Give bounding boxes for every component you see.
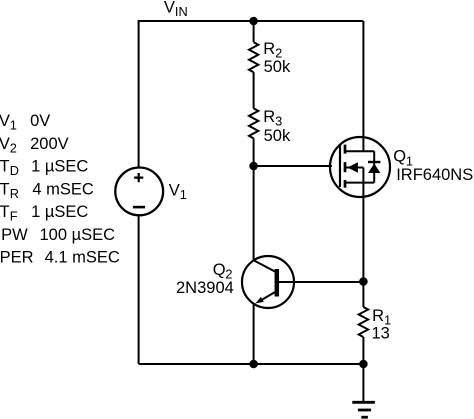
svg-text:R: R xyxy=(10,186,19,201)
resistor R2 xyxy=(249,40,291,76)
svg-text:PER: PER xyxy=(0,249,34,267)
svg-text:1 µSEC: 1 µSEC xyxy=(31,203,88,221)
transistor Q2 2N3904 xyxy=(176,256,294,308)
node junction dot R3 / gate xyxy=(249,162,258,171)
ground xyxy=(352,402,375,417)
svg-text:4 mSEC: 4 mSEC xyxy=(32,180,94,198)
body diode triangle xyxy=(368,164,380,174)
svg-text:1: 1 xyxy=(180,187,187,202)
svg-text:50k: 50k xyxy=(264,58,291,76)
svg-text:R: R xyxy=(372,307,384,325)
svg-text:1: 1 xyxy=(10,118,17,133)
resistor R3 xyxy=(249,108,291,145)
body stub with arrow xyxy=(345,167,363,169)
svg-text:Q: Q xyxy=(213,261,226,279)
wire top rail VIN xyxy=(139,20,364,22)
svg-text:V: V xyxy=(164,0,175,16)
node junction dot top rail / R2 xyxy=(249,17,258,26)
svg-text:4.1 mSEC: 4.1 mSEC xyxy=(45,249,120,267)
svg-text:R: R xyxy=(263,40,275,58)
svg-text:PW: PW xyxy=(1,226,28,244)
parameter list text xyxy=(0,112,120,267)
mosfet Q1 IRF640NS xyxy=(330,137,473,198)
wire Q2 base to source node xyxy=(279,281,363,283)
body diode vertical xyxy=(373,151,375,182)
source vertical inside xyxy=(362,168,364,198)
svg-text:F: F xyxy=(10,209,18,224)
wire R3 to Q2 collector xyxy=(253,138,255,260)
node junction dot Q2 emitter / bottom rail xyxy=(249,360,258,369)
svg-text:0V: 0V xyxy=(30,112,50,130)
svg-text:IRF640NS: IRF640NS xyxy=(396,166,473,184)
wire Q1 drain to top rail xyxy=(362,21,364,137)
svg-text:D: D xyxy=(10,163,19,178)
node junction dot source / base xyxy=(359,277,368,286)
svg-text:13: 13 xyxy=(372,325,390,343)
svg-text:1 µSEC: 1 µSEC xyxy=(31,158,88,176)
svg-text:R: R xyxy=(263,108,275,126)
gate bar xyxy=(339,145,341,187)
svg-text:50k: 50k xyxy=(264,127,291,145)
wire middle vertical: top rail to R2 xyxy=(253,21,255,42)
svg-text:T: T xyxy=(0,158,10,176)
svg-text:Q: Q xyxy=(393,148,406,166)
resistor R1 xyxy=(359,307,391,343)
wire to ground xyxy=(362,364,364,402)
wire bottom rail xyxy=(139,363,364,365)
base bar xyxy=(275,269,280,297)
svg-text:2: 2 xyxy=(10,140,17,155)
svg-text:T: T xyxy=(0,203,10,221)
svg-text:200V: 200V xyxy=(30,135,69,153)
wire between R2 and R3 xyxy=(253,72,255,108)
svg-text:T: T xyxy=(0,180,10,198)
svg-text:100 µSEC: 100 µSEC xyxy=(40,226,116,244)
voltage source V1 xyxy=(115,168,187,216)
svg-text:V: V xyxy=(0,135,10,153)
channel segment middle xyxy=(344,162,347,172)
node VIN label xyxy=(164,0,188,19)
svg-text:2N3904: 2N3904 xyxy=(176,279,234,297)
svg-text:V: V xyxy=(0,112,10,130)
node junction dot bottom rail / ground xyxy=(359,360,368,369)
collector lead xyxy=(254,260,277,272)
svg-text:IN: IN xyxy=(175,4,188,19)
wire Q1 source to base node xyxy=(362,197,364,307)
body diode cathode bar xyxy=(368,161,380,163)
source stub xyxy=(345,182,374,184)
channel segment top xyxy=(344,145,347,154)
wire gate branch (node to Q1 gate) xyxy=(254,165,332,167)
emitter lead with arrow xyxy=(261,291,277,300)
wire Q2 emitter to bottom rail xyxy=(253,304,255,364)
wire R1 to bottom rail xyxy=(362,337,364,364)
wire left vertical lower (V1 minus to bottom rail) xyxy=(138,215,140,364)
drain vertical inside xyxy=(362,137,364,152)
wire left vertical upper (V1 plus to VIN) xyxy=(138,20,140,168)
svg-text:V: V xyxy=(169,181,180,199)
drain stub xyxy=(345,150,374,152)
channel segment bottom xyxy=(344,180,347,188)
